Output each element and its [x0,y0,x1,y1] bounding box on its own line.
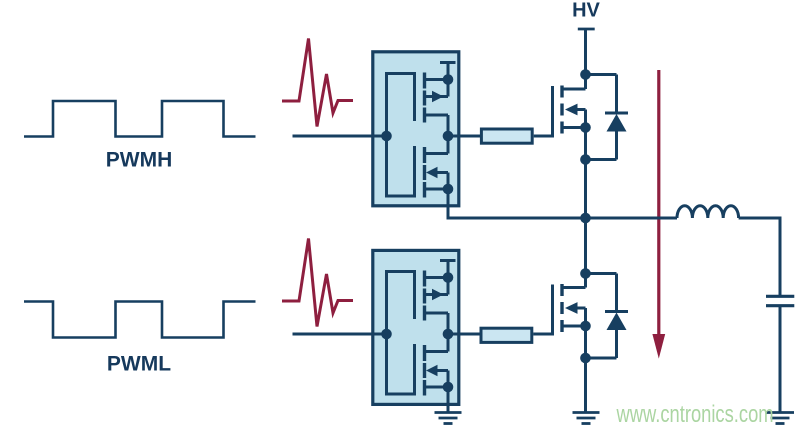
wire: U1 output to R1 [448,135,481,138]
U2 NMOS source node dot [443,382,454,393]
U2 input node dot [381,329,392,340]
transistor Q1 stubs [562,75,586,128]
inductor L1 [677,206,739,218]
svg-text:www.cntronics.com: www.cntronics.com [616,401,774,428]
PWML waveform [24,302,256,338]
U2 input gate loop [387,272,415,395]
capacitor C1 [766,296,794,305]
ground: U2 [435,413,462,424]
U1 PMOS channel [423,73,426,123]
resistor R1 [481,129,532,143]
node: D2 anode dot [580,353,591,364]
U1 NMOS stubs [425,136,449,189]
U1 PMOS supply T-bar [440,61,456,64]
U1 input node dot [381,131,392,142]
transistor Q2 gate bar [551,285,554,336]
wire: PWMH input to U1 [293,135,387,138]
wire: inductor to output node [739,218,780,295]
svg-text:HV: HV [572,0,600,22]
U2 PMOS supply T-bar [440,259,456,262]
resistor R2 [481,328,532,342]
wire: U1 low rail to switch node [448,189,586,218]
diode D2 [586,274,629,359]
ground: Q2 source [573,413,600,424]
wire: R2 to Q2 gate [533,333,554,336]
transistor Q1 gate bar [551,86,554,138]
U2 output node dot [443,329,454,340]
U1 NMOS body arrow [426,167,438,179]
transistor Q2 body arrow [565,302,578,314]
node: D1 anode / switch dot [580,154,591,165]
U1 input gate loop [387,74,415,197]
current arrow (red) [657,70,660,336]
U1 PMOS body arrow [432,91,444,103]
wire: switch node to inductor [586,217,678,220]
U1 PMOS drain/source stubs [425,63,449,137]
U2 PMOS stubs [425,261,449,335]
U1 PMOS drain node dot [443,74,454,85]
wire: switch node to Q2 drain [584,218,587,288]
svg-text:PWML: PWML [107,353,171,376]
U2 PMOS drain node dot [443,272,454,283]
switch node junction dot [580,213,591,224]
Q1 source node dot [580,122,591,133]
node: Q2 drain / D2 cathode dot [580,268,591,279]
transistor Q2 channel [560,284,563,332]
gate driver U2 body [373,250,459,404]
U2 PMOS channel [423,271,426,321]
transistor Q2 stubs [562,274,586,327]
wire: PWML input to U2 [293,333,387,336]
diode D2 triangle [607,313,627,331]
wire: HV bar to Q1 drain [584,29,587,75]
PWMH waveform [24,101,256,137]
transistor Q1 body arrow [565,104,578,116]
HV terminal bar [578,28,595,31]
U2 NMOS body arrow [426,365,438,377]
wire: capacitor to ground [779,306,782,412]
U2 NMOS channel [423,345,426,396]
U1 NMOS channel [423,147,426,198]
glitch spike waveform 2 [282,239,353,327]
U1 NMOS source node dot [443,184,454,195]
wire: U2 ground lead [447,387,450,412]
diode D1 triangle [607,114,627,132]
wire: U2 output to R2 [448,333,481,336]
U2 PMOS body arrow [432,289,444,301]
glitch spike waveform 1 [282,39,353,127]
transistor Q1 channel [560,86,563,134]
wire: R1 to Q1 gate [534,135,554,138]
U2 NMOS stubs [425,334,449,387]
ground: output [766,413,794,424]
wire: Q2 source to ground [584,326,587,412]
U1 output node dot [443,131,454,142]
wire: Q1 source to switch node [584,128,587,219]
gate driver U1 body [373,52,459,206]
diode D1 [586,75,629,160]
Q2 source node dot [580,321,591,332]
svg-text:PWMH: PWMH [106,149,173,172]
node: Q1 drain / D1 cathode dot [580,69,591,80]
